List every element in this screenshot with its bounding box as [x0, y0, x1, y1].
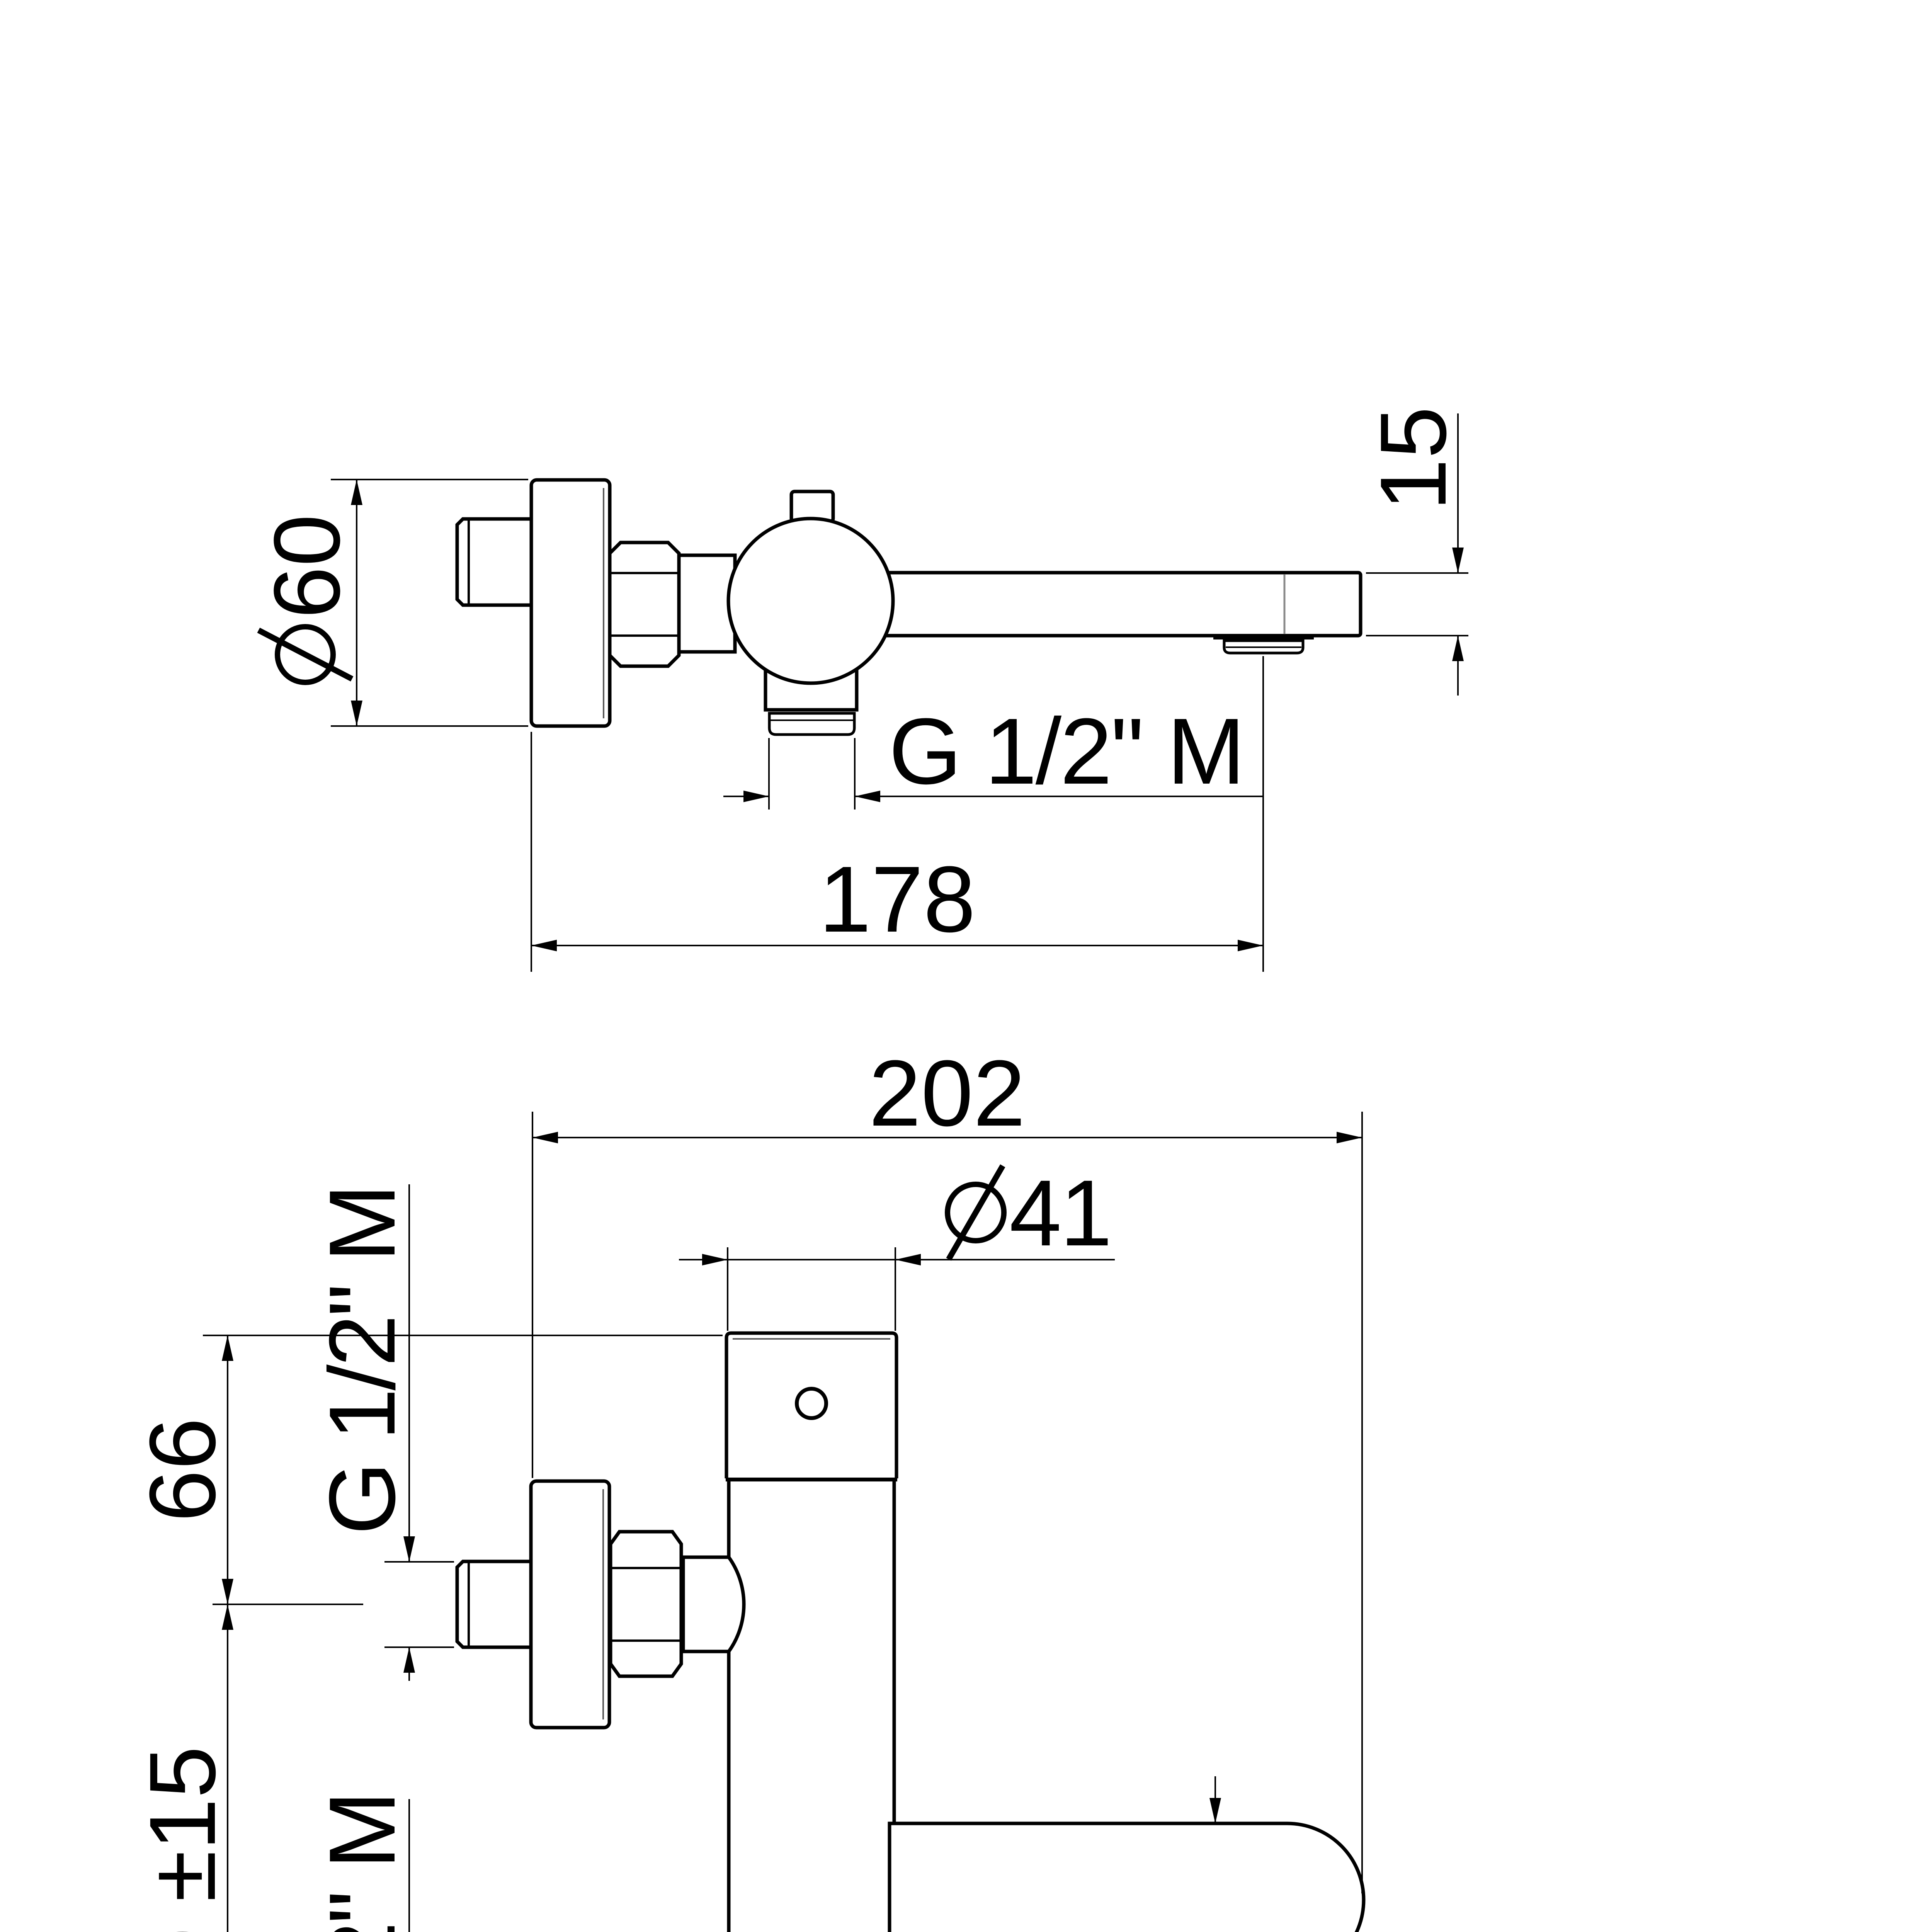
body shaft edges [727, 1481, 731, 1932]
wall flange (side view) [531, 480, 610, 726]
dim O38 arrows [1209, 1798, 1221, 1823]
dim O60 extension lines [331, 479, 528, 480]
upper stub chamfer line [468, 1562, 470, 1646]
dim 66 text [130, 1418, 235, 1522]
svg-text:178: 178 [819, 847, 975, 952]
dim 178 line [531, 945, 1263, 946]
dim 202 arrows [532, 1132, 558, 1143]
dim 178 text [819, 847, 975, 952]
svg-text:41: 41 [1009, 1161, 1111, 1265]
dim 66 arrows [222, 1335, 233, 1361]
stub chamfer line [468, 520, 470, 604]
svg-text:G 1/2" M: G 1/2" M [310, 1793, 415, 1932]
svg-text:66: 66 [130, 1418, 235, 1522]
svg-text:G 1/2" M: G 1/2" M [310, 1186, 415, 1535]
dim O60 diameter symbol [277, 627, 333, 682]
dim 202 line [532, 1137, 1362, 1138]
dim O60 text [255, 514, 359, 619]
aerator inner line [1226, 646, 1301, 648]
aerator ring [1224, 641, 1303, 653]
dim 15 line [1457, 413, 1459, 573]
dim O41 text [1009, 1161, 1111, 1265]
top knob [791, 492, 833, 522]
dim G 1/2 M upper text [310, 1186, 415, 1535]
wall stub (side view) [457, 519, 531, 605]
dim G 1/2 M lower lines [408, 1799, 410, 1932]
nut face lines [611, 572, 678, 574]
flange face line [603, 488, 604, 718]
dim O38 lines [1214, 1776, 1216, 1823]
dim 202 text [869, 1041, 1025, 1146]
dim O41 line [679, 1259, 1115, 1260]
spout arm (side view) [869, 573, 1361, 636]
outlet neck below body [765, 661, 857, 710]
upper connector cylinder with dome [683, 1557, 744, 1651]
dim 15 text [1361, 406, 1466, 511]
top screw hole [797, 1389, 826, 1418]
dim 178 arrows [531, 940, 557, 951]
dim G 1/2 M text [889, 699, 1244, 804]
spout end joint line [1284, 575, 1286, 634]
collar groove line [770, 719, 854, 721]
upper hex nut (front) [611, 1532, 681, 1676]
top block bottom edge [726, 1478, 897, 1481]
dim G 1/2 M upper lines [408, 1184, 410, 1562]
dim G 1/2 M lower text [310, 1793, 415, 1932]
dim G 1/2 M upper arrows [403, 1536, 415, 1562]
dim 150 text [130, 1746, 235, 1932]
dim O41 diameter symbol [947, 1184, 1004, 1241]
dim 66 extension lines [203, 1335, 723, 1336]
upper wall flange (front) [531, 1481, 609, 1728]
svg-text:60: 60 [255, 514, 359, 619]
outlet collar [769, 713, 854, 735]
nozzle lip under spout [1213, 635, 1314, 639]
svg-text:150 ±15: 150 ±15 [130, 1746, 235, 1932]
dim O60 arrows [351, 480, 362, 505]
dim O60 line [356, 480, 357, 726]
upper flange face line [602, 1489, 604, 1719]
top block face line [733, 1338, 890, 1340]
spout (front view) [890, 1823, 1364, 1932]
svg-text:15: 15 [1361, 406, 1466, 511]
dim 66 line [227, 1335, 228, 1604]
dim G 1/2 M lines [723, 796, 769, 797]
dim G 1/2 M (outlet) extension lines [768, 738, 770, 810]
dim 150 line [227, 1604, 228, 1932]
dim 150 arrows [222, 1604, 233, 1630]
dim G 1/2 M upper extension lines [384, 1561, 454, 1563]
dim 15 arrows [1452, 548, 1464, 573]
dim 178 extension lines [531, 732, 532, 972]
dim O41 arrows [702, 1254, 728, 1265]
svg-text:202: 202 [869, 1041, 1025, 1146]
svg-text:G 1/2" M: G 1/2" M [889, 699, 1244, 804]
mixer body circle [728, 519, 893, 683]
dim O41 extension lines [727, 1247, 728, 1331]
dim G 1/2 M arrows [743, 791, 769, 802]
dim 15 extension lines [1366, 572, 1468, 574]
dim 202 extension lines [532, 1112, 533, 1478]
hex nut (side view) [610, 543, 679, 666]
connector cylinder (side view) [679, 555, 735, 652]
top block [726, 1333, 896, 1478]
upper wall stub (front) [457, 1561, 531, 1647]
